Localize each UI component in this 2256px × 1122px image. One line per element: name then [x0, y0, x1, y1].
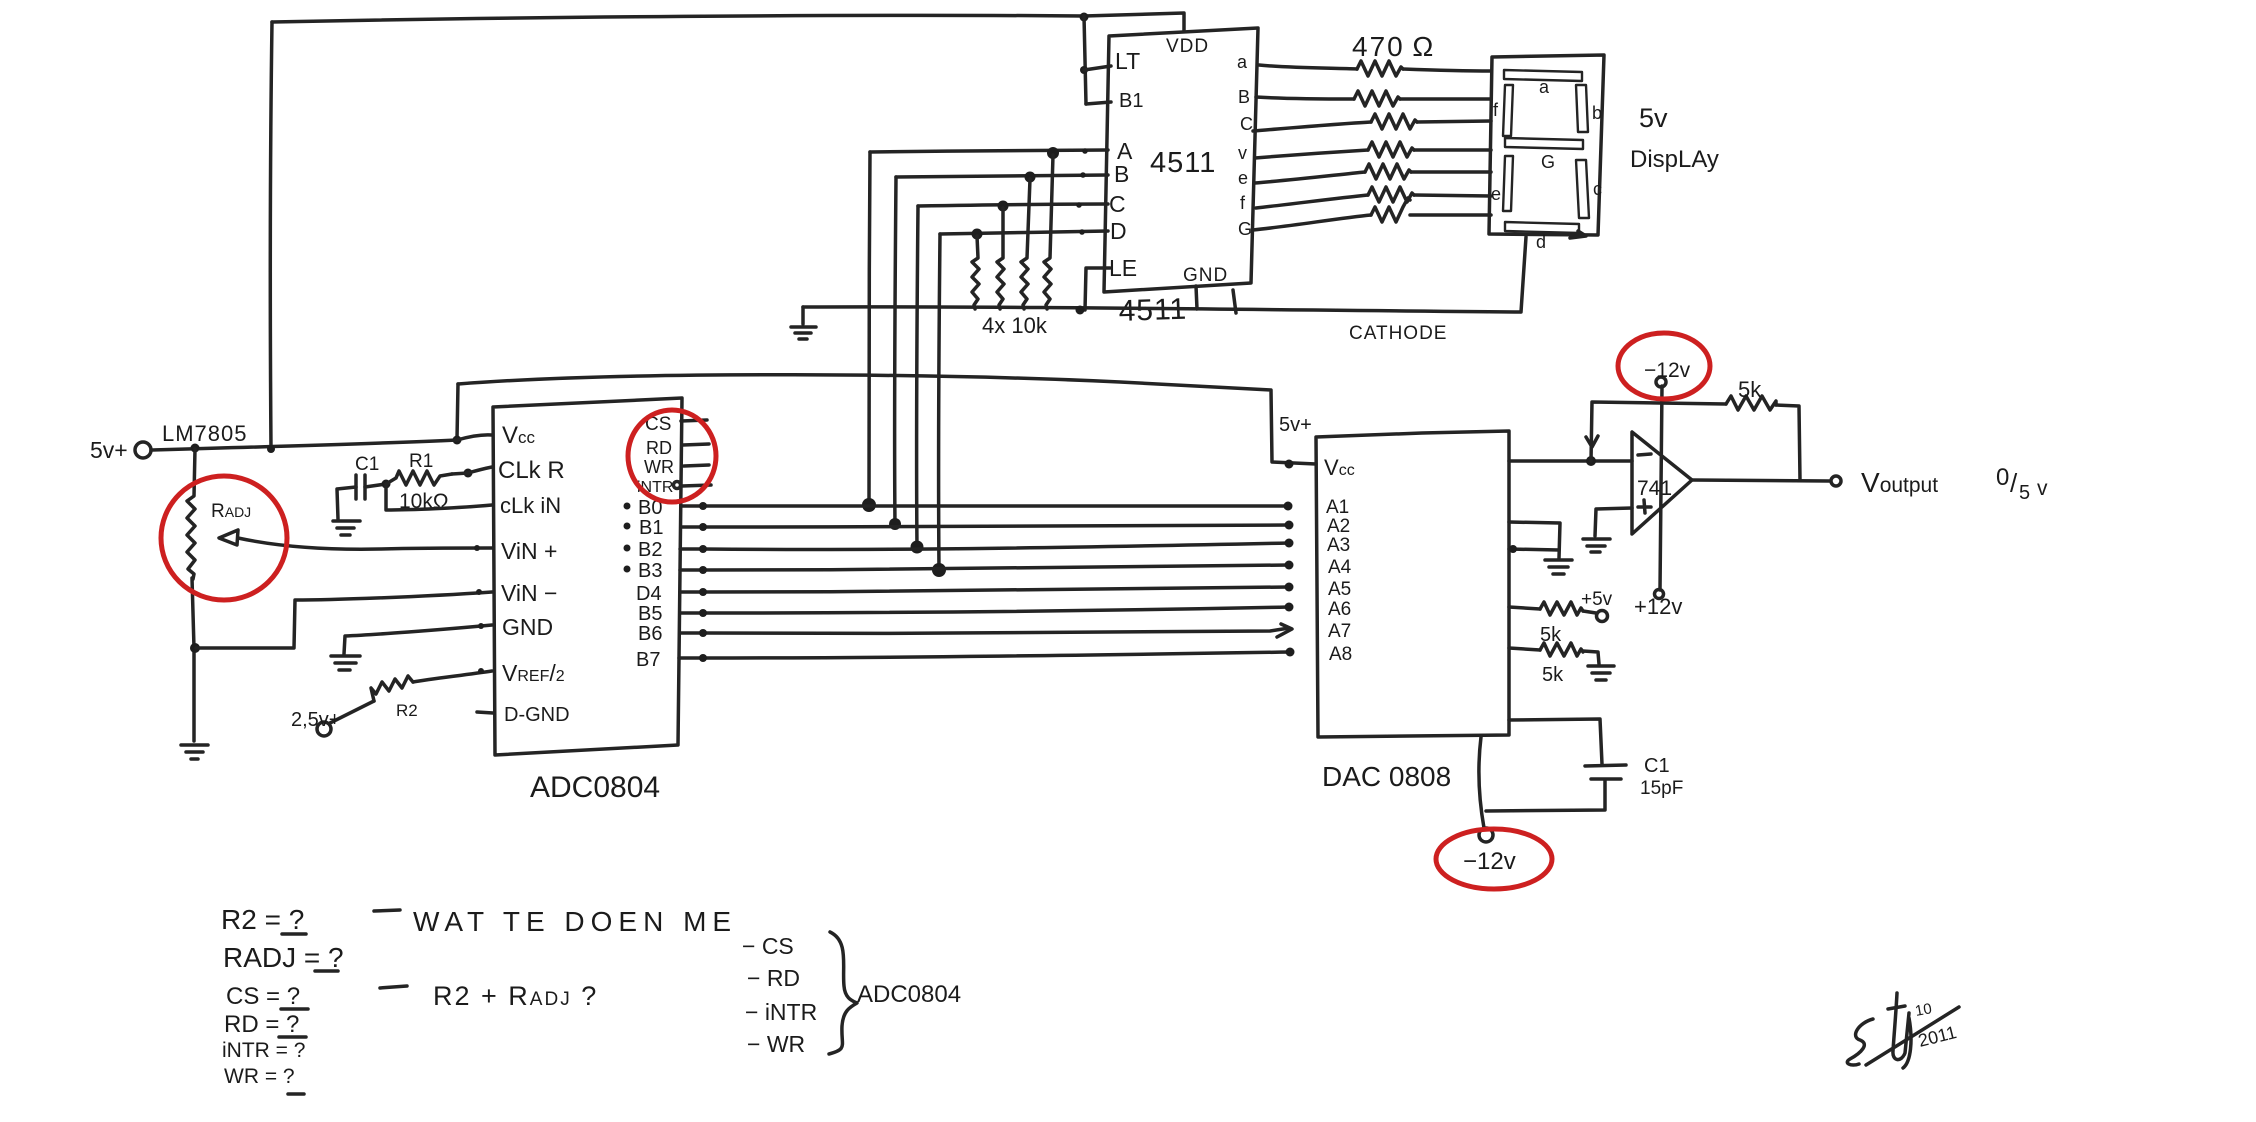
- segment c: [1576, 160, 1589, 218]
- node bullet B2: [624, 545, 631, 552]
- wire vertical to LT and BI pins: [1084, 16, 1086, 104]
- svg-text:+5v: +5v: [1581, 589, 1613, 610]
- svg-text:A5: A5: [1328, 579, 1351, 600]
- terminal Voutput: [1831, 476, 1841, 486]
- IC U2 4511 body: [1104, 28, 1258, 292]
- svg-text:c: c: [1593, 179, 1602, 199]
- node pin C dot: [1076, 202, 1082, 208]
- svg-text:RADJ: RADJ: [211, 501, 251, 522]
- svg-text:470 Ω: 470 Ω: [1352, 31, 1435, 62]
- wire C1 left to ground: [337, 487, 356, 519]
- wire R2 to 2.5V terminal: [330, 701, 374, 723]
- node B7 stub dot: [699, 654, 707, 662]
- svg-text:a: a: [1539, 77, 1550, 97]
- label minus input: [1638, 454, 1651, 455]
- node B2 stub dot: [699, 545, 707, 553]
- wire ground rail under 4511 to cathode: [803, 307, 1520, 312]
- wire RD stub: [683, 444, 709, 445]
- wire g to display: [1410, 213, 1491, 217]
- svg-text:A7: A7: [1328, 621, 1351, 642]
- node riser-B1 junction: [889, 518, 901, 530]
- wire segment e: [1255, 172, 1365, 183]
- svg-text:−12v: −12v: [1644, 359, 1691, 382]
- wire f to display: [1414, 195, 1491, 196]
- svg-text:B1: B1: [1119, 90, 1143, 112]
- wire d to display: [1414, 148, 1491, 152]
- wire segment d: [1255, 150, 1368, 158]
- node bullet B1: [624, 523, 631, 530]
- svg-text:− WR: − WR: [747, 1031, 805, 1057]
- wire B3 bus to DAC A4: [680, 565, 1289, 570]
- wire Vin- route: [196, 592, 492, 648]
- node A8 dot: [1286, 648, 1295, 657]
- wire left tall riser from 5V line up to top rail: [270, 22, 272, 449]
- wire D-GND stub: [477, 712, 493, 713]
- wire riser B2 to C: [917, 206, 918, 548]
- svg-text:D4: D4: [636, 583, 662, 605]
- svg-text:LE: LE: [1109, 255, 1137, 281]
- svg-text:5v+: 5v+: [1279, 414, 1312, 436]
- node feedback tap: [1586, 456, 1596, 466]
- resistor Rc 470: [1371, 114, 1417, 129]
- resistor Rf 470: [1368, 187, 1414, 202]
- svg-text:4x 10k: 4x 10k: [982, 313, 1048, 338]
- svg-text:v: v: [2037, 477, 2048, 500]
- ground symbol left of 10k bank: [791, 307, 816, 339]
- node INTR circle: [674, 482, 681, 489]
- node B1 stub dot: [699, 523, 707, 531]
- svg-text:WR = ?: WR = ?: [224, 1065, 295, 1088]
- svg-text:RD = ?: RD = ?: [224, 1011, 299, 1038]
- signature slash: [1866, 1007, 1959, 1065]
- node DAC pin dot: [1509, 545, 1517, 553]
- svg-text:ADC0804: ADC0804: [530, 771, 660, 804]
- wire INTR stub: [682, 485, 711, 486]
- capacitor C1 plates: [356, 475, 365, 499]
- svg-text:G: G: [1541, 152, 1555, 172]
- svg-text:v: v: [1238, 143, 1247, 163]
- svg-text:D-GND: D-GND: [504, 704, 570, 726]
- terminal +5V: [1597, 611, 1608, 622]
- node C1-R1 junction: [382, 480, 391, 489]
- svg-text:LM7805: LM7805: [162, 421, 248, 446]
- svg-text:CLk R: CLk R: [498, 457, 565, 484]
- wire power vertical through op-amp: [1660, 386, 1662, 590]
- wire WR stub: [684, 465, 709, 466]
- node pin D dot: [1079, 229, 1085, 235]
- svg-text:cLk iN: cLk iN: [500, 493, 561, 518]
- label plus input: [1638, 500, 1651, 513]
- svg-text:R1: R1: [409, 451, 433, 472]
- resistor 10k pull-down on A: [1044, 155, 1053, 309]
- wire B7 bus to DAC A8: [679, 652, 1290, 658]
- resistor R2 diagonal: [371, 676, 413, 701]
- node left riser tap: [267, 445, 275, 453]
- svg-text:ADC0804: ADC0804: [857, 981, 961, 1008]
- svg-text:a: a: [1237, 52, 1248, 72]
- ground symbol DAC right: [1545, 560, 1572, 574]
- svg-text:B: B: [1238, 87, 1250, 107]
- wire 5k to +5V terminal: [1583, 611, 1596, 613]
- wire DAC to 5k ground: [1509, 648, 1540, 650]
- svg-text:GND: GND: [502, 614, 553, 640]
- node LT tap: [1080, 66, 1088, 74]
- svg-text:−12v: −12v: [1463, 848, 1516, 875]
- svg-text:B2: B2: [638, 539, 662, 561]
- svg-text:DAC 0808: DAC 0808: [1322, 761, 1451, 792]
- svg-text:WR: WR: [644, 457, 674, 477]
- svg-text:− RD: − RD: [747, 965, 800, 991]
- svg-text:B5: B5: [638, 603, 662, 625]
- wire feedback to output: [1776, 405, 1800, 480]
- node GND pin dot: [478, 623, 484, 629]
- node Vin+ pin dot: [474, 545, 480, 551]
- node A5 dot: [1285, 583, 1294, 592]
- brace right: [829, 932, 857, 1054]
- node B6 stub dot: [699, 629, 707, 637]
- wire feedback riser and top run: [1591, 402, 1726, 461]
- wire B2 bus to DAC A3: [680, 543, 1289, 550]
- wire wiper to Vin+: [238, 538, 492, 549]
- wire 5k to ground: [1583, 651, 1599, 664]
- wire riser B0 to A: [869, 152, 870, 505]
- node B5 stub dot: [699, 609, 707, 617]
- wire B line: [896, 175, 1108, 177]
- svg-text:e: e: [1238, 168, 1248, 188]
- wire A line from riser to 4511 pin A: [870, 150, 1108, 152]
- svg-text:R2 = ?: R2 = ?: [221, 904, 304, 935]
- svg-text:A6: A6: [1328, 599, 1351, 620]
- node A1 dot: [1284, 502, 1293, 511]
- svg-text:5v+: 5v+: [90, 437, 128, 463]
- svg-text:A2: A2: [1327, 516, 1350, 537]
- resistor Re 470: [1365, 164, 1411, 179]
- terminal -12V top: [1656, 377, 1666, 387]
- node pin B dot: [1080, 172, 1086, 178]
- svg-text:A3: A3: [1327, 535, 1350, 556]
- wire GND pin stub of 4511: [1196, 286, 1197, 309]
- resistor Rg 470: [1371, 198, 1410, 222]
- wire C1 bottom to -12V line: [1486, 780, 1605, 811]
- wire DAC VEE drop: [1479, 737, 1484, 828]
- wire riser to ADC Vcc: [457, 384, 458, 439]
- resistor 10k pull-down on D: [972, 236, 979, 309]
- svg-text:A4: A4: [1328, 557, 1352, 578]
- svg-text:A1: A1: [1326, 497, 1349, 518]
- resistor 10k pull-down on C: [997, 208, 1004, 309]
- segment f: [1503, 85, 1513, 136]
- node RADJ tap: [191, 444, 200, 453]
- resistor Ra 470: [1357, 61, 1403, 76]
- signature S stroke: [1847, 1019, 1873, 1065]
- ground symbol bottom left: [181, 745, 208, 759]
- wire B1 bus to DAC A2: [681, 525, 1289, 527]
- svg-text:RD: RD: [646, 438, 672, 458]
- wire DAC out to op-amp minus input: [1509, 459, 1632, 463]
- signature tall strokes: [1888, 993, 1911, 1068]
- svg-text:5v: 5v: [1639, 103, 1668, 133]
- svg-text:B1: B1: [639, 517, 663, 539]
- node A4 dot: [1285, 561, 1294, 570]
- wire CLK IN down-and-left: [386, 485, 492, 510]
- resistor RADJ vertical: [187, 449, 195, 579]
- wire e to display: [1411, 170, 1491, 174]
- svg-text:+12v: +12v: [1634, 594, 1682, 619]
- node D-10k junction: [972, 229, 983, 240]
- ground symbol op-amp plus: [1583, 539, 1610, 552]
- svg-text:4511: 4511: [1150, 147, 1216, 179]
- annotation red ellipse -12V bottom: [1436, 829, 1552, 889]
- wire C line: [918, 204, 1108, 206]
- svg-text:/: /: [2010, 468, 2018, 498]
- svg-text:5: 5: [2019, 482, 2030, 504]
- node LE rail junction: [1076, 306, 1085, 315]
- node RADJ bottom tap: [190, 643, 200, 653]
- node ADC Vcc junction: [453, 436, 462, 445]
- svg-text:D: D: [1110, 218, 1127, 244]
- arrowhead A7: [1277, 624, 1292, 637]
- resistor R1: [386, 471, 452, 485]
- wire B6 bus to DAC A7: [680, 628, 1289, 633]
- terminal -12V bottom: [1479, 828, 1493, 842]
- node B-10k junction: [1025, 172, 1036, 183]
- wiper arrow of RADJ: [219, 530, 238, 545]
- wire segment b: [1256, 97, 1354, 99]
- wire segment a from 4511 to R: [1259, 65, 1357, 69]
- svg-text:VDD: VDD: [1166, 36, 1209, 57]
- wire DAC pin 2 join: [1509, 549, 1559, 550]
- resistor Rf 5k: [1726, 396, 1776, 410]
- wire 5V rail to DAC: [458, 375, 1316, 464]
- wire C1 right to junction: [365, 484, 386, 487]
- wire D line: [940, 231, 1108, 234]
- svg-text:0: 0: [1996, 464, 2009, 491]
- svg-text:R2 + RADJ ?: R2 + RADJ ?: [433, 981, 598, 1011]
- node VREF pin dot: [478, 668, 484, 674]
- svg-text:d: d: [1536, 232, 1546, 252]
- svg-text:ViN −: ViN −: [501, 580, 557, 606]
- resistor Rd 470: [1368, 142, 1414, 157]
- svg-text:B: B: [1114, 161, 1129, 187]
- terminal 2.5V+: [317, 722, 331, 736]
- svg-text:− iNTR: − iNTR: [745, 999, 817, 1025]
- wire GND pin to ground: [344, 625, 492, 654]
- svg-text:2,5v+: 2,5v+: [291, 709, 340, 731]
- wire DAC pin to ground via: [1509, 522, 1560, 558]
- wire a to display: [1403, 69, 1491, 71]
- node Vin- pin dot: [476, 589, 482, 595]
- wire LT pin stub: [1084, 66, 1111, 70]
- display DS1 body: [1489, 55, 1604, 235]
- node A3 dot: [1285, 539, 1294, 548]
- label dash WAT: [374, 910, 400, 911]
- node pin A dot: [1082, 148, 1088, 154]
- svg-text:A8: A8: [1329, 644, 1352, 665]
- segment b: [1576, 85, 1588, 132]
- segment d: [1505, 222, 1579, 233]
- node riser-B2 junction: [911, 541, 924, 554]
- node C-10k junction: [998, 201, 1009, 212]
- svg-text:ViN +: ViN +: [501, 538, 557, 564]
- annotation red ellipse -12V top: [1618, 333, 1710, 399]
- ground symbol under GND wire: [331, 656, 360, 670]
- node CLKR junction: [464, 469, 473, 478]
- wire display cathode drop: [1521, 237, 1526, 312]
- resistor 5k to +5V: [1540, 602, 1583, 615]
- terminal +12V bottom: [1655, 590, 1664, 599]
- IC U3 DAC0808 body: [1316, 431, 1509, 737]
- resistor 10k pull-down on B: [1021, 179, 1030, 309]
- wire segment c: [1253, 122, 1371, 131]
- svg-text:CATHODE: CATHODE: [1349, 323, 1447, 344]
- node A-10k junction: [1047, 147, 1059, 159]
- node B0 stub dot: [699, 502, 707, 510]
- wire CS stub: [681, 420, 707, 421]
- wire segment g: [1253, 215, 1371, 230]
- wire RADJ lower column: [192, 578, 194, 741]
- svg-text:WAT TE DOEN ME: WAT TE DOEN ME: [413, 906, 737, 937]
- svg-text:DispLAy: DispLAy: [1630, 146, 1719, 173]
- IC U1 ADC0804 body: [493, 398, 682, 755]
- wire B5 bus to DAC A6: [680, 607, 1289, 613]
- svg-text:B3: B3: [638, 560, 662, 582]
- segment e: [1503, 156, 1513, 211]
- node A2 dot: [1285, 521, 1294, 530]
- svg-text:5k: 5k: [1542, 664, 1564, 686]
- ground symbol 5k: [1588, 666, 1614, 680]
- wire LE pin to rail: [1085, 268, 1110, 310]
- svg-text:741: 741: [1637, 477, 1672, 500]
- resistor Rb 470: [1354, 91, 1400, 106]
- wire DAC to 5k +5V: [1509, 607, 1540, 609]
- svg-text:B6: B6: [638, 623, 662, 645]
- node DAC Vcc dot: [1285, 460, 1294, 469]
- wire 5V feed line from terminal: [151, 440, 457, 450]
- svg-text:5k: 5k: [1738, 377, 1762, 402]
- node riser-B0 junction: [862, 498, 876, 512]
- ground symbol under C1: [333, 521, 360, 535]
- svg-text:10: 10: [1914, 1000, 1933, 1020]
- wire segment f: [1256, 195, 1368, 208]
- label dash R2+RADJ: [380, 986, 407, 988]
- svg-text:C: C: [1240, 114, 1253, 134]
- annotation red circle on control pins: [628, 410, 716, 502]
- segment G: [1505, 138, 1583, 149]
- svg-text:b: b: [1592, 103, 1602, 123]
- segment a: [1504, 70, 1582, 81]
- node bullet B3: [624, 566, 631, 573]
- svg-text:C: C: [1109, 191, 1126, 217]
- wire ADC Vcc stub: [457, 435, 492, 440]
- svg-text:GND: GND: [1183, 265, 1228, 286]
- svg-text:iNTR = ?: iNTR = ?: [222, 1039, 305, 1062]
- svg-text:e: e: [1491, 184, 1501, 204]
- resistor 5k to ground: [1540, 643, 1583, 656]
- wire top 5V rail from left riser to 4511 VDD: [272, 13, 1184, 31]
- svg-text:R2: R2: [396, 701, 418, 720]
- wire b to display: [1400, 97, 1491, 101]
- node bullet B0: [624, 503, 631, 510]
- wire riser B3 to D: [939, 234, 940, 570]
- node riser-B3 junction: [932, 563, 946, 577]
- svg-text:C1: C1: [1644, 755, 1670, 777]
- wire R1 to CLK R pin: [452, 467, 492, 474]
- node B4 stub dot: [699, 588, 707, 596]
- node B3 stub dot: [699, 566, 707, 574]
- svg-text:CS = ?: CS = ?: [226, 983, 300, 1010]
- svg-text:LT: LT: [1115, 48, 1140, 74]
- annotation red circle on RADJ: [161, 476, 287, 600]
- wire op-amp output: [1692, 480, 1829, 481]
- svg-text:− CS: − CS: [742, 933, 794, 959]
- wire plus input to ground: [1595, 508, 1632, 536]
- svg-text:15pF: 15pF: [1640, 778, 1683, 799]
- node A6 dot: [1285, 603, 1294, 612]
- wire BI pin stub: [1086, 102, 1111, 104]
- svg-text:B7: B7: [636, 649, 660, 671]
- wire B0 bus to DAC A1: [681, 504, 1288, 508]
- wire riser B1 to B: [895, 177, 896, 526]
- wire c to display: [1417, 121, 1491, 122]
- capacitor C2 15pF plates: [1585, 765, 1626, 779]
- wire B4 bus to DAC A5: [680, 587, 1289, 592]
- svg-text:C1: C1: [355, 454, 379, 475]
- svg-text:G: G: [1238, 219, 1252, 239]
- wire DAC comp pin to C1: [1509, 719, 1602, 764]
- terminal 5V+ input: [135, 442, 151, 458]
- wire VREF/2 to R2: [413, 671, 492, 682]
- op-amp U4 741: [1632, 432, 1692, 534]
- node top rail junction: [1080, 13, 1089, 22]
- svg-text:RADJ = ?: RADJ = ?: [223, 942, 344, 973]
